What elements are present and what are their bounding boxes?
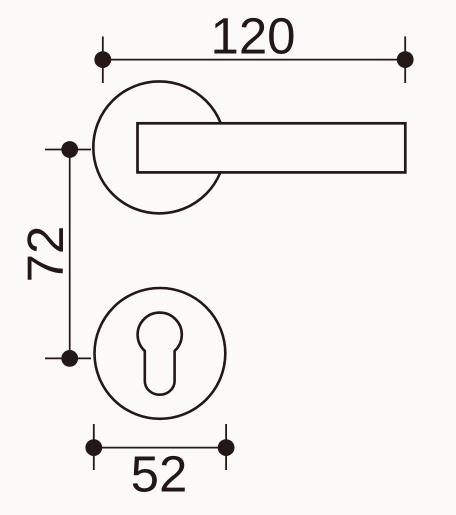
dimension line 120 (horizontal top): [103, 59, 405, 61]
svg-text:52: 52: [131, 445, 188, 502]
right dot of 52: [218, 439, 235, 456]
dimension line 72 (vertical left): [69, 150, 71, 359]
bottom tick of 72: [45, 357, 91, 359]
svg-text:120: 120: [210, 7, 295, 64]
left tick of 52: [93, 424, 95, 470]
left tick of 120: [102, 36, 104, 83]
bottom dot of 72: [61, 350, 78, 367]
top dot of 72: [61, 141, 78, 158]
right tick of 52: [225, 424, 227, 470]
left dot of 52: [85, 439, 102, 456]
right dot of 120: [397, 51, 414, 68]
lever handle bar: [138, 123, 406, 172]
euro profile keyhole: [138, 313, 182, 395]
left dot of 120: [94, 51, 111, 68]
top tick of 72: [45, 149, 91, 151]
dimension line 52 (horizontal bottom): [94, 447, 226, 449]
rose circle (top escutcheon): [93, 81, 225, 213]
svg-text:72: 72: [17, 226, 74, 283]
right tick of 120: [404, 36, 406, 83]
key escutcheon circle (bottom): [94, 288, 225, 419]
